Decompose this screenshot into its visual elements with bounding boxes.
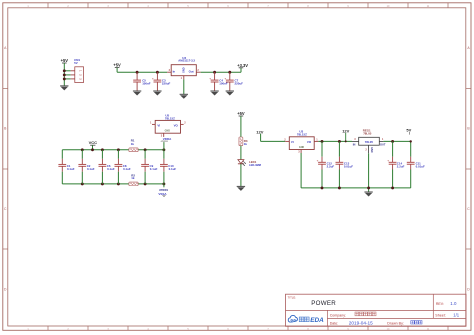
junction dots bottom rail	[81, 182, 165, 185]
regulator REG1 78L05	[352, 129, 386, 154]
svg-text:Company:: Company:	[330, 313, 346, 317]
regulator U3 78L15Z	[284, 129, 318, 153]
svg-text:78L05: 78L05	[363, 131, 372, 135]
capacitor C8	[115, 150, 131, 184]
svg-text:0.1uF: 0.1uF	[150, 167, 158, 171]
svg-text:VCC: VCC	[89, 140, 98, 145]
title text POWER	[288, 295, 337, 306]
junction node C14	[391, 140, 394, 143]
wire +5V to ground vertical	[63, 63, 65, 86]
svg-text:VI: VI	[291, 140, 294, 144]
svg-text:1.0: 1.0	[450, 301, 457, 306]
wire +5V to R3	[240, 116, 242, 137]
svg-text:VSSA: VSSA	[158, 192, 167, 196]
net label 12V (input)	[256, 129, 263, 141]
junction dots CN1	[63, 69, 66, 80]
resistor R1	[129, 138, 138, 151]
svg-text:Drawn By:: Drawn By:	[387, 321, 404, 325]
capacitor C11	[407, 141, 425, 188]
svg-text:2019-04-15: 2019-04-15	[349, 321, 373, 326]
wire LED1 to ground	[240, 164, 242, 187]
svg-text:0.1uF: 0.1uF	[169, 167, 177, 171]
svg-text:VI: VI	[157, 123, 160, 127]
wire pin1 CN1	[64, 70, 75, 72]
svg-text:5V: 5V	[406, 128, 411, 133]
svg-text:GND: GND	[165, 129, 171, 132]
capacitor C9	[141, 150, 157, 184]
svg-text:78L15Z: 78L15Z	[297, 132, 307, 136]
svg-text:220uF: 220uF	[235, 82, 244, 86]
sheet field	[435, 313, 459, 318]
svg-text:0.1uF: 0.1uF	[107, 167, 115, 171]
power flag VCC	[89, 140, 98, 150]
svg-text:+: +	[224, 76, 226, 80]
connector CN1	[74, 58, 83, 82]
ground (C7)	[226, 91, 234, 96]
junction node C4	[213, 71, 216, 74]
svg-text:LED-3MM: LED-3MM	[249, 163, 261, 167]
regulator U5 78L15Z	[150, 113, 186, 137]
capacitor C13	[336, 141, 354, 188]
ground (CN1 branch)	[60, 86, 68, 91]
svg-text:REV:: REV:	[436, 302, 444, 306]
power flag +5V (LED branch)	[237, 111, 245, 116]
svg-text:POWER: POWER	[311, 300, 336, 307]
svg-text:1k: 1k	[131, 142, 135, 146]
svg-text:0.01uF: 0.01uF	[344, 164, 353, 168]
svg-text:2.2uF: 2.2uF	[327, 164, 335, 168]
wire bottom rail	[62, 183, 164, 185]
svg-text:12V: 12V	[342, 129, 349, 134]
svg-text:VO: VO	[307, 140, 312, 144]
border row letters	[4, 46, 470, 292]
capacitor C7 polarized	[224, 72, 243, 91]
svg-text:VO: VO	[174, 123, 179, 127]
power flag +3.3V	[237, 63, 248, 68]
svg-text:78L05: 78L05	[365, 140, 374, 144]
ground (regulator chain)	[364, 192, 372, 197]
svg-text:+: +	[387, 159, 389, 163]
net flag VDDA	[161, 137, 173, 143]
resistor R3	[239, 137, 248, 146]
ground (U2)	[180, 94, 188, 99]
LCEDA logo	[288, 315, 324, 324]
svg-text:GND: GND	[299, 146, 305, 149]
capacitor C4	[209, 72, 228, 91]
svg-text:Out: Out	[189, 70, 194, 74]
svg-text:EDA: EDA	[310, 317, 324, 324]
wire +5V to U2 In	[117, 68, 167, 73]
svg-text:1k: 1k	[131, 176, 135, 180]
junction node C13	[338, 140, 341, 143]
net flag VSSA	[158, 184, 168, 197]
svg-text:5V: 5V	[74, 61, 78, 65]
svg-text:AMS1117-3.3: AMS1117-3.3	[178, 59, 195, 63]
svg-text:+: +	[152, 76, 154, 80]
junction dots top rail	[81, 148, 165, 151]
border row ticks left/right	[3, 89, 471, 250]
wire 12V to U3 VI	[261, 140, 286, 142]
capacitor C5	[133, 72, 151, 91]
junction node C5	[136, 71, 139, 74]
wire U2 Out to +3.3V	[201, 68, 241, 72]
power flag +5V (regulator input)	[113, 63, 121, 68]
wire REG1 OUT to 5V	[383, 140, 410, 142]
net label 5V (output)	[406, 128, 412, 143]
capacitor C6	[99, 150, 115, 184]
svg-text:+3.3V: +3.3V	[237, 63, 248, 68]
ground (C5)	[133, 91, 141, 96]
svg-text:IN: IN	[353, 143, 356, 147]
svg-text:1k: 1k	[244, 142, 248, 146]
ground (C3)	[153, 91, 161, 96]
wire U3 GND down	[300, 153, 302, 188]
svg-text:12V: 12V	[256, 129, 263, 134]
svg-text:220uF: 220uF	[162, 82, 171, 86]
svg-text:TITLE:: TITLE:	[288, 295, 297, 299]
ground (C4)	[210, 91, 218, 96]
wire R3 to LED1	[240, 146, 242, 160]
svg-text:#PWR2: #PWR2	[161, 141, 169, 143]
svg-text:78L15Z: 78L15Z	[165, 116, 175, 120]
wire bottom rail (regulator chain)	[301, 187, 411, 189]
resistor R2	[129, 173, 138, 185]
drawn by field	[387, 321, 422, 326]
svg-text:0.1uF: 0.1uF	[67, 167, 75, 171]
svg-text:+5V: +5V	[113, 63, 121, 68]
junction node C12	[321, 140, 324, 143]
wire REG1 GND down to ground	[368, 153, 370, 192]
wire VDDA to top rail	[163, 142, 165, 150]
junction node C7	[228, 71, 231, 74]
svg-text:+: +	[209, 76, 211, 80]
svg-text:0.01uF: 0.01uF	[416, 164, 425, 168]
svg-text:OUT: OUT	[380, 143, 386, 147]
junction node C3	[156, 71, 159, 74]
capacitor C2	[78, 150, 94, 184]
capacitor C10	[160, 150, 176, 184]
svg-text:GND: GND	[183, 67, 186, 73]
svg-text:Date:: Date:	[330, 321, 339, 325]
company field	[330, 312, 376, 317]
wire U3 VO to REG1 IN	[318, 140, 352, 142]
net label 12V (mid)	[342, 129, 349, 143]
title block frame	[286, 294, 467, 326]
ground (LED branch)	[237, 186, 245, 191]
svg-text:1/1: 1/1	[453, 313, 459, 318]
svg-text:100nF: 100nF	[142, 82, 151, 86]
svg-text:0.1uF: 0.1uF	[123, 167, 131, 171]
svg-text:GND: GND	[370, 147, 373, 153]
rev field	[436, 301, 457, 306]
LED LED1	[238, 160, 261, 167]
capacitor C14 polarized	[387, 141, 404, 188]
wire pin2 CN1	[64, 74, 75, 76]
capacitor C3 polarized	[152, 72, 170, 91]
capacitor C1	[58, 150, 74, 184]
svg-text:0.1uF: 0.1uF	[87, 167, 95, 171]
svg-text:In: In	[173, 70, 176, 74]
capacitor C12 polarized	[317, 141, 335, 188]
svg-text:+5V: +5V	[61, 58, 69, 63]
junction dots bottom rail (chain)	[321, 186, 395, 189]
power flag +5V (CN1 branch)	[61, 58, 69, 63]
svg-text:Sheet:: Sheet:	[435, 313, 445, 317]
wire VCC top rail	[62, 149, 164, 151]
wire pin3 CN1	[64, 78, 75, 80]
wire U2 GND to ground	[183, 79, 185, 94]
svg-text:2.2uF: 2.2uF	[397, 164, 405, 168]
regulator U2 AMS1117-3.3	[167, 56, 201, 80]
svg-text:+: +	[317, 159, 319, 163]
date field	[330, 321, 373, 326]
svg-text:+5V: +5V	[237, 111, 245, 116]
